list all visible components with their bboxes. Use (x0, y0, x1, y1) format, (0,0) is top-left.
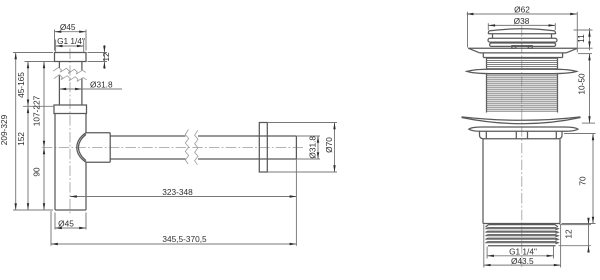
dimension &#216;31.8 outlet pipe (296, 136, 320, 159)
svg-text:345,5-370,5: 345,5-370,5 (162, 234, 207, 244)
dimension &#216;62 flange (467, 4, 578, 52)
cap inner skirt (493, 34, 552, 38)
dimension &#216;70 wall flange (267, 123, 337, 173)
svg-text:70: 70 (577, 176, 587, 186)
dimension &#216;43.5 body (484, 225, 561, 268)
svg-text:209-329: 209-329 (0, 114, 9, 145)
svg-text:45-165: 45-165 (16, 72, 26, 98)
svg-text:152: 152 (16, 132, 26, 146)
extension line bottle bottom left (13, 209, 53, 211)
sealing dish washer (462, 117, 581, 124)
centerline horizontal of outlet pipe (42, 147, 303, 149)
pop-up cap dome (488, 29, 556, 34)
ball joint of outlet (77, 133, 86, 163)
dimension 345,5-370,5 overall length (51, 159, 296, 246)
drain body (483, 139, 560, 224)
pipe break squiggle right (195, 130, 198, 165)
outlet connector nut (86, 133, 110, 163)
dimension G1 1/4" tail thread (487, 247, 553, 259)
svg-text:Ø31.8: Ø31.8 (90, 79, 113, 89)
dimension 70 body height (562, 134, 596, 224)
bottle trap body (55, 114, 86, 211)
pipe break squiggle left (185, 130, 188, 165)
dimension G1 1/4" inlet thread (56, 36, 85, 52)
dimension &#216;45 top flange (55, 22, 87, 50)
svg-text:Ø45: Ø45 (60, 22, 76, 32)
body shoulder (480, 131, 563, 139)
dimension 12 tail thread length (559, 218, 592, 253)
cap ring upper (488, 38, 557, 42)
drain top flange (468, 48, 578, 53)
svg-text:323-348: 323-348 (162, 187, 193, 197)
dimension &#216;38 cap (488, 16, 555, 30)
svg-text:Ø45: Ø45 (58, 218, 74, 228)
collar under flange (483, 53, 562, 58)
svg-text:90: 90 (32, 167, 42, 177)
thread section lower (487, 74, 558, 113)
dimension 323-348 (70, 187, 296, 198)
centerline vertical of pop-up drain (521, 26, 523, 267)
dimension 45-165 and 152 (16, 62, 29, 211)
extension line flange bottom left (25, 61, 55, 63)
dimension 12 flange height (88, 45, 111, 69)
dimension 107-227 and 90 (32, 62, 46, 211)
svg-text:Ø31.8: Ø31.8 (308, 136, 318, 159)
inlet pipe neck (59, 62, 82, 106)
dimension &#216;31.8 neck (59, 79, 122, 90)
pipe break squiggle upper (53, 67, 86, 74)
inlet top flange (55, 53, 87, 62)
dimension &#216;45 bottle body (55, 213, 86, 230)
svg-text:Ø70: Ø70 (324, 137, 334, 153)
pipe break squiggle lower (54, 75, 87, 82)
svg-text:10-50: 10-50 (577, 73, 587, 95)
svg-text:Ø38: Ø38 (514, 16, 530, 26)
cap ring lower (490, 43, 556, 46)
svg-text:11: 11 (576, 34, 586, 43)
middle locking washer (467, 69, 577, 73)
extension line flange top left (13, 52, 53, 54)
thread section upper (487, 58, 558, 70)
svg-text:Ø62: Ø62 (514, 4, 530, 14)
compression nut on bottle top (54, 105, 87, 114)
centerline vertical of bottle trap (69, 49, 71, 216)
wall escutcheon flange (259, 123, 267, 173)
dimension 209-329 overall height (0, 53, 17, 211)
svg-text:107-227: 107-227 (32, 95, 42, 126)
extension line nut top left (23, 105, 54, 107)
outlet pipe wall tube (110, 136, 296, 159)
svg-text:Ø43.5: Ø43.5 (511, 256, 534, 266)
svg-text:12: 12 (101, 52, 111, 62)
svg-text:G1 1/4": G1 1/4" (57, 36, 85, 46)
svg-text:12: 12 (564, 229, 574, 239)
dimension 11 cap height (574, 28, 593, 51)
tail thread G1 1/4 (486, 225, 559, 246)
flat seal washer (469, 127, 578, 131)
pop-up stem tabs (512, 46, 533, 48)
dimension 10-50 clamping range (577, 54, 595, 124)
